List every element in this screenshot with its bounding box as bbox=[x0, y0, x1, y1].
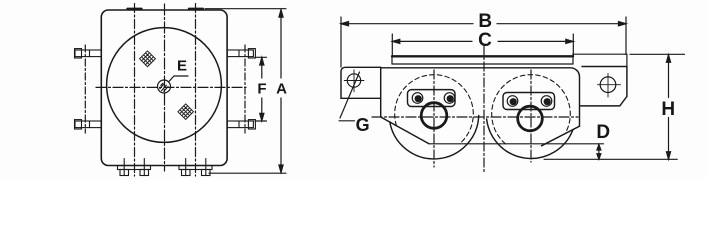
dimension F line and arrows bbox=[260, 58, 264, 121]
dimension C line and arrows bbox=[392, 39, 573, 43]
right roller dashed circle bbox=[492, 75, 571, 144]
center pivot circle E bbox=[158, 80, 171, 93]
svg-text:H: H bbox=[661, 99, 675, 120]
svg-text:D: D bbox=[596, 122, 610, 143]
frame bottom edge / dimension D extension line bbox=[429, 143, 604, 145]
right bolt plate bbox=[503, 93, 555, 110]
right bolt centerline bbox=[244, 45, 246, 133]
hatched square upper-left bbox=[140, 51, 156, 67]
horizontal centerline bbox=[96, 86, 246, 88]
dimension C extension lines bbox=[392, 34, 573, 56]
dimension B line and arrows bbox=[341, 22, 626, 26]
svg-text:F: F bbox=[257, 80, 266, 97]
top mounting tabs bbox=[127, 8, 203, 10]
horizontal centerline front bbox=[372, 116, 578, 118]
vertical centerline middle front bbox=[483, 46, 485, 172]
frame top edge bbox=[381, 68, 580, 126]
vertical centerline left roller bbox=[134, 4, 136, 177]
left wheel arc bbox=[390, 116, 479, 159]
leader E bbox=[169, 76, 188, 82]
frame left edge bbox=[381, 67, 429, 144]
left bolt plate bbox=[408, 90, 456, 107]
left bolt centerline bbox=[84, 45, 86, 133]
dimension B extension lines bbox=[341, 17, 626, 67]
hatched square lower-right bbox=[178, 104, 194, 120]
top plate bbox=[392, 56, 573, 64]
frame right chamfer bbox=[542, 126, 580, 146]
bolt top-left bbox=[75, 49, 102, 58]
left axle bbox=[421, 103, 447, 129]
dimension H extension line bbox=[630, 53, 685, 55]
dimension A line and arrows bbox=[279, 10, 283, 173]
vertical centerline middle bbox=[164, 4, 166, 171]
bolt top-right bbox=[227, 49, 255, 58]
svg-text:E: E bbox=[177, 57, 187, 74]
right lug hole bbox=[600, 77, 616, 93]
vertical centerline left roller front bbox=[433, 70, 435, 167]
svg-text:A: A bbox=[276, 80, 287, 97]
dimension H line and arrows bbox=[666, 55, 670, 159]
dimension D line and arrows bbox=[597, 145, 601, 160]
right axle bbox=[518, 106, 543, 131]
right foot bar bbox=[179, 159, 212, 176]
pivot hatch bbox=[160, 83, 168, 91]
right cap edge bbox=[573, 54, 627, 66]
left plate bolts bbox=[412, 93, 423, 104]
svg-text:G: G bbox=[356, 115, 370, 135]
bolt bottom-left bbox=[75, 120, 102, 129]
left lug hole bbox=[347, 74, 360, 87]
right lug bbox=[581, 67, 627, 106]
bolt bottom-right bbox=[227, 120, 255, 129]
left lug bbox=[341, 67, 381, 98]
right plate bolts bbox=[507, 96, 518, 107]
vertical centerline right roller front bbox=[530, 70, 532, 162]
left roller dashed circle bbox=[395, 75, 474, 144]
svg-text:B: B bbox=[478, 11, 492, 32]
left lug hole ticks bbox=[344, 70, 364, 92]
label E bbox=[177, 57, 287, 97]
dimension A extension lines bbox=[205, 9, 286, 174]
right lug hole ticks bbox=[598, 74, 621, 98]
svg-text:C: C bbox=[478, 30, 492, 51]
turntable big circle bbox=[107, 28, 222, 143]
leader G bbox=[339, 72, 360, 121]
housing rounded rectangle bbox=[101, 10, 227, 166]
left foot bar bbox=[118, 159, 151, 176]
ground extension line bbox=[544, 158, 677, 160]
right wheel arc bbox=[487, 119, 573, 158]
vertical centerline right roller bbox=[195, 4, 197, 177]
dimension F extension lines bbox=[255, 57, 267, 121]
